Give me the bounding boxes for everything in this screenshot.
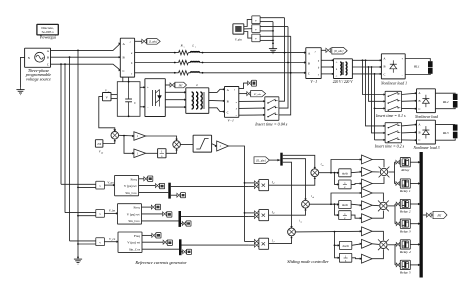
svg-text:Relay 1: Relay 1 xyxy=(399,189,411,193)
svg-text:V_cn: V_cn xyxy=(109,237,116,241)
svg-text:B: B xyxy=(123,55,125,59)
svg-text:RL2: RL2 xyxy=(442,100,449,104)
svg-text:Freq: Freq xyxy=(134,234,140,238)
svg-text:Nonlinear load 3: Nonlinear load 3 xyxy=(413,146,440,150)
svg-text:du/dt: du/dt xyxy=(342,203,348,207)
svg-text:Nonlinear load 1: Nonlinear load 1 xyxy=(380,82,407,86)
svg-text:Relay 3: Relay 3 xyxy=(399,229,411,233)
svg-text:a*: a* xyxy=(273,183,275,185)
svg-text:B: B xyxy=(418,99,420,103)
svg-text:b*: b* xyxy=(273,213,275,215)
svg-text:C: C xyxy=(47,63,49,67)
svg-text:C: C xyxy=(418,107,420,111)
svg-text:V (pu) wt: V (pu) wt xyxy=(127,241,140,245)
svg-text:IC_abc: IC_abc xyxy=(253,93,262,96)
svg-text:I: I xyxy=(233,89,235,92)
svg-text:s: s xyxy=(161,155,162,158)
svg-text:Insert time = 0.04 s: Insert time = 0.04 s xyxy=(254,121,288,126)
svg-text:V - I: V - I xyxy=(228,119,235,123)
svg-text:−: − xyxy=(147,106,149,110)
svg-text:V_an: V_an xyxy=(107,180,114,184)
svg-text:Insert time = 0.1 s: Insert time = 0.1 s xyxy=(375,113,406,118)
svg-text:Sin_Cos: Sin_Cos xyxy=(125,191,137,195)
svg-text:+: + xyxy=(147,86,149,90)
svg-text:B: B xyxy=(383,65,385,69)
svg-text:B: B xyxy=(47,56,49,60)
svg-text:C: C xyxy=(227,110,229,114)
svg-text:I: I xyxy=(129,41,131,44)
svg-text:Sin_Cos: Sin_Cos xyxy=(128,219,140,223)
svg-text:Powergui: Powergui xyxy=(40,35,57,40)
svg-text:V (pu) wt: V (pu) wt xyxy=(127,212,140,216)
svg-text:[IL_abc]: [IL_abc] xyxy=(256,159,266,162)
svg-text:Nonlinear load: Nonlinear load xyxy=(414,115,438,119)
svg-text:sa: sa xyxy=(322,165,324,167)
svg-text:V (pu) wt: V (pu) wt xyxy=(124,184,137,188)
svg-text:C: C xyxy=(383,73,385,77)
svg-text:Freq: Freq xyxy=(133,206,139,210)
svg-text:[g]: [g] xyxy=(179,83,183,87)
svg-text:B: B xyxy=(308,62,310,66)
svg-text:du/dt: du/dt xyxy=(342,171,348,175)
svg-text:220 V / 220 V: 220 V / 220 V xyxy=(333,80,354,84)
svg-text:sb: sb xyxy=(312,197,314,199)
svg-text:sc: sc xyxy=(300,222,302,224)
svg-text:V - I: V - I xyxy=(310,80,317,84)
svg-text:s: s xyxy=(184,47,185,49)
svg-text:5e-005 s: 5e-005 s xyxy=(42,30,55,34)
svg-text:L: L xyxy=(195,83,198,87)
svg-text:V_bn: V_bn xyxy=(109,209,116,213)
svg-text:L: L xyxy=(191,44,194,48)
svg-text:Relay 4: Relay 4 xyxy=(399,250,411,254)
svg-text:C: C xyxy=(418,138,420,142)
svg-text:I: I xyxy=(314,51,316,54)
svg-text:C: C xyxy=(308,72,310,76)
svg-text:V_abc: V_abc xyxy=(235,39,243,42)
svg-text:B: B xyxy=(418,130,420,134)
svg-text:RL3: RL3 xyxy=(442,131,449,135)
svg-text:[Il_abc]: [Il_abc] xyxy=(334,50,343,53)
svg-text:B: B xyxy=(227,100,229,104)
svg-text:C: C xyxy=(123,69,125,73)
svg-text:Relay 2: Relay 2 xyxy=(399,210,411,214)
svg-text:[I_abc]: [I_abc] xyxy=(149,41,158,44)
svg-text:s: s xyxy=(195,47,196,49)
svg-text:voltage source: voltage source xyxy=(26,77,51,82)
svg-text:Relay: Relay xyxy=(400,168,409,172)
svg-text:RL1: RL1 xyxy=(413,65,420,69)
svg-text:Sliding mode controller: Sliding mode controller xyxy=(287,259,329,264)
svg-text:Reference currents generator: Reference currents generator xyxy=(134,260,187,265)
svg-text:du/dt: du/dt xyxy=(343,244,349,248)
svg-text:Sin_Cos: Sin_Cos xyxy=(129,248,141,252)
svg-text:Relay 5: Relay 5 xyxy=(399,271,411,275)
svg-text:c*: c* xyxy=(273,241,275,243)
svg-text:Insert time = 0.2 s: Insert time = 0.2 s xyxy=(374,143,405,148)
svg-text:dc: dc xyxy=(107,91,109,93)
svg-text:R: R xyxy=(180,44,183,48)
svg-text:Freq: Freq xyxy=(131,177,137,181)
